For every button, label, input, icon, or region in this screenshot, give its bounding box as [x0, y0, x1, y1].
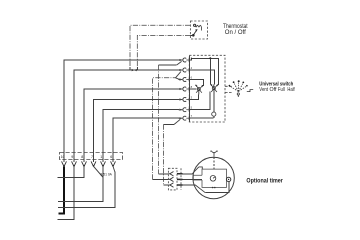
- connector row 4: [178, 87, 190, 91]
- switch positions label: [259, 87, 295, 93]
- wire stub thermostat drops: [129, 67, 131, 70]
- wire lamp to row 7: [213, 116, 215, 118]
- terminal 1: [63, 153, 65, 160]
- connector row 7: [178, 116, 190, 120]
- thermostat bimetal squiggle: [196, 25, 202, 30]
- wire row 3 optional: [153, 78, 176, 180]
- svg-text:7: 7: [191, 114, 193, 118]
- svg-text:4: 4: [191, 66, 193, 70]
- wire row 2 inside box: [189, 70, 214, 84]
- connector row 5: [178, 98, 190, 102]
- selector position diagram: [229, 80, 254, 97]
- svg-text:6: 6: [110, 155, 112, 159]
- pin marks: [191, 56, 193, 118]
- connector row 1: [178, 58, 190, 62]
- wire thermostat return: [137, 36, 190, 71]
- wire terminal 1 heavy: [59, 166, 65, 213]
- svg-text:8: 8: [191, 85, 193, 89]
- wire row 6: [103, 110, 179, 153]
- wire terminal 6: [113, 166, 115, 172]
- wire row 7 inside box: [189, 117, 213, 119]
- lamp: [212, 112, 216, 116]
- svg-text:6: 6: [191, 75, 193, 79]
- inline connector on row 2: [132, 69, 137, 71]
- terminal 2: [73, 153, 75, 160]
- timer fork row 2: [168, 177, 173, 182]
- svg-text:8,51 0A: 8,51 0A: [101, 172, 113, 176]
- timer mechanism box: [202, 169, 227, 187]
- wire terminal 5: [58, 166, 103, 201]
- wire timer row1 lead: [159, 173, 169, 175]
- connector row 2: [178, 68, 190, 72]
- connector row 3: [178, 78, 190, 82]
- wire row3 to timer row2: [153, 178, 169, 180]
- wire row 7: [113, 118, 179, 152]
- wire row 4: [84, 89, 179, 153]
- timer plug receptacle: [193, 175, 202, 180]
- timer fork row 3: [168, 183, 173, 188]
- junction row 1: [209, 57, 211, 59]
- timer pin row 1: [177, 173, 183, 175]
- universal switch box: [189, 55, 225, 122]
- terminal strip: [60, 153, 123, 160]
- svg-text:On / Off: On / Off: [225, 30, 246, 36]
- timer actuator link: [213, 157, 215, 169]
- svg-text:Optional timer: Optional timer: [246, 178, 283, 185]
- timer motor: [210, 176, 216, 182]
- wire terminal 2: [58, 166, 75, 219]
- wire timer row1 to mechanism: [183, 173, 193, 175]
- svg-text:Off: Off: [270, 87, 277, 93]
- svg-text:1: 1: [100, 155, 102, 159]
- wire row1 tap to timer: [177, 61, 182, 65]
- wire terminal 4 jumper: [94, 166, 104, 177]
- timer pin row 2: [177, 178, 183, 180]
- timer bottom contacts: [212, 187, 214, 189]
- svg-text:Full: Full: [278, 87, 285, 93]
- wire row 5: [94, 100, 180, 153]
- wire switch to lamp: [213, 90, 215, 112]
- wire row 1: [64, 60, 179, 153]
- wire row 6 inside box: [189, 92, 210, 110]
- svg-text:7: 7: [91, 155, 93, 159]
- thermostat bottom contact: [192, 34, 195, 37]
- wire timer row3 to bottom: [183, 184, 196, 186]
- connector row 6: [178, 108, 190, 112]
- thermostat moving arm: [194, 30, 197, 35]
- optional timer circle: [193, 157, 234, 198]
- mechanical link to selector: [225, 85, 232, 87]
- wire thermostat top feed: [130, 25, 190, 70]
- wire row 1 inside box: [189, 58, 218, 85]
- wire terminal 3: [58, 166, 85, 177]
- wire row 3 inside box: [189, 80, 203, 87]
- rotary switch S1: [195, 85, 203, 95]
- wire row 1 tap: [209, 58, 211, 84]
- svg-text:3: 3: [191, 95, 193, 99]
- timer block pin rail: [180, 168, 182, 190]
- thermostat box: [190, 21, 207, 39]
- svg-text:9: 9: [71, 155, 73, 159]
- wire timer row2 to mechanism: [183, 178, 202, 180]
- terminal 5: [102, 153, 104, 160]
- thermostat contact terminal: [194, 24, 196, 26]
- svg-text:Half: Half: [287, 87, 295, 93]
- timer connector block: [168, 168, 177, 190]
- timer bottom wire: [205, 182, 229, 193]
- timer fork row 1: [168, 171, 173, 176]
- wire fork to row 2 connector: [176, 72, 181, 78]
- terminal 4: [93, 153, 95, 160]
- wire row 4 inside box: [189, 88, 196, 90]
- timer pin row 3: [177, 184, 183, 186]
- svg-text:8: 8: [81, 155, 83, 159]
- timer actuator: [210, 151, 217, 157]
- timer terminal: [226, 177, 230, 181]
- wire fork to row 3 connector: [176, 78, 181, 80]
- wire connector tap to timer row3: [174, 119, 180, 124]
- terminal 3: [83, 153, 85, 160]
- rotary switch S2: [210, 84, 218, 92]
- terminal 6: [112, 153, 114, 160]
- terminal strip numbers: [61, 155, 113, 159]
- svg-text:5: 5: [191, 106, 193, 110]
- svg-text:Vent: Vent: [259, 87, 268, 93]
- wire row 5 inside box: [189, 94, 198, 99]
- wire row 2: [74, 70, 179, 153]
